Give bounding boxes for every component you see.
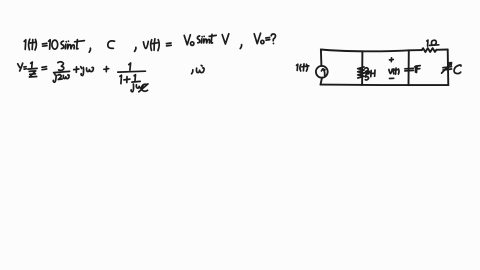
wire top right (436, 49, 447, 51)
equation line 2: , w-dot (192, 65, 205, 73)
capacitor C2 arrow (442, 63, 452, 74)
equation line 1: i(t) = 10 sin t (24, 39, 90, 52)
wire left edge (321, 50, 323, 85)
equation line 1: V0 sin t V , V0 = ? (184, 33, 275, 48)
capacitor C1 plates (405, 68, 414, 71)
wire branch 2 (408, 50, 410, 85)
equation line 2: Y = 1/Z = (18, 62, 47, 77)
current source I1 (316, 66, 328, 78)
label 1F (415, 66, 421, 73)
capacitor C2 plates (443, 67, 452, 70)
inductor L1 scribble (358, 67, 364, 78)
label C (454, 65, 461, 74)
circuit: label i(t) (297, 64, 309, 71)
wire top edge (321, 50, 422, 52)
equation line 1: , C , v(t) = (108, 39, 171, 52)
label + v(t) - (389, 58, 399, 79)
wire branch 1 (361, 52, 363, 85)
label 1 ohm (427, 40, 439, 46)
wire bottom edge (321, 84, 449, 87)
resistor R1 (422, 48, 437, 52)
equation line 2: + jw + (74, 67, 109, 76)
equation line 2: 3 / j2w (53, 62, 69, 82)
equation line 2: big fraction 1/(1+1/jwC) (118, 63, 148, 92)
wire right edge (447, 50, 450, 86)
label 2/5 H (365, 68, 376, 80)
